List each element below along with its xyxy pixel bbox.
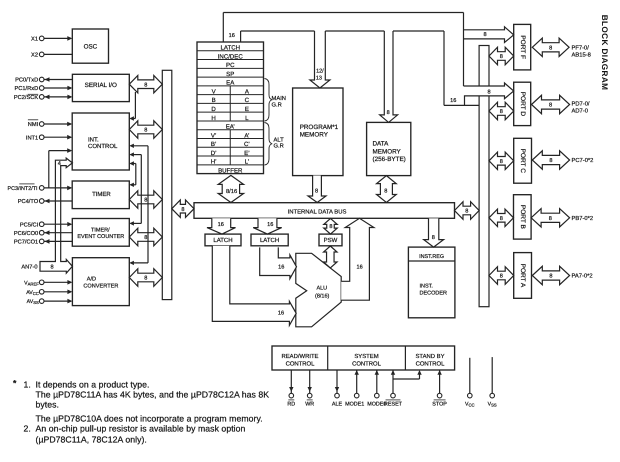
svg-text:B: B [212,97,216,104]
svg-text:MEMORY: MEMORY [373,148,402,155]
svg-text:D: D [211,106,216,113]
svg-text:LATCH: LATCH [220,45,240,52]
svg-text:PD7-0/: PD7-0/ [572,100,590,107]
svg-text:8: 8 [432,235,435,241]
svg-text:PC7/CO1: PC7/CO1 [14,239,38,246]
svg-text:The µPD78C10A does not incorpo: The µPD78C10A does not incorporate a pro… [36,414,263,424]
svg-text:C’: C’ [244,141,250,148]
svg-text:16: 16 [218,222,224,228]
svg-text:ALU: ALU [316,285,327,291]
svg-text:8: 8 [465,209,468,215]
svg-text:ALT: ALT [274,137,285,143]
svg-text:INT1: INT1 [26,135,38,141]
svg-text:PSW: PSW [324,237,338,244]
svg-text:CONVERTER: CONVERTER [83,283,118,289]
svg-text:8: 8 [315,188,318,194]
svg-text:8: 8 [50,265,53,271]
svg-text:PC: PC [226,62,235,69]
svg-text:X2: X2 [31,53,38,59]
svg-text:(µPD78C11A, 78C12A only).: (µPD78C11A, 78C12A only). [36,435,147,445]
svg-text:VSS: VSS [488,402,497,408]
svg-text:PB7-0*2: PB7-0*2 [572,215,594,222]
svg-text:READ/WRITE: READ/WRITE [282,353,319,360]
svg-text:TIMER/: TIMER/ [91,228,110,234]
svg-text:BUFFER: BUFFER [218,167,243,174]
svg-text:RESET: RESET [384,402,403,408]
svg-text:PA7-0*2: PA7-0*2 [572,273,593,280]
svg-text:EA’: EA’ [226,124,235,131]
svg-text:PC7-0*2: PC7-0*2 [572,157,594,164]
svg-text:INTERNAL DATA BUS: INTERNAL DATA BUS [288,208,347,215]
svg-text:LATCH: LATCH [260,237,279,244]
svg-text:16: 16 [267,222,273,228]
svg-text:AD7-0: AD7-0 [572,107,588,114]
svg-text:DECODER: DECODER [420,291,448,297]
svg-text:PC3/INT2/TI: PC3/INT2/TI [8,186,38,192]
svg-text:16: 16 [356,265,362,271]
svg-text:12/: 12/ [316,68,324,74]
svg-text:E: E [245,106,249,113]
svg-text:INT.: INT. [88,136,99,143]
svg-text:B’: B’ [211,141,216,148]
svg-text:WR: WR [305,402,314,408]
svg-text:8: 8 [384,188,387,194]
svg-text:G.R: G.R [274,143,284,150]
svg-text:16: 16 [229,33,235,39]
svg-text:CONTROL: CONTROL [88,143,118,150]
svg-text:RD: RD [287,402,295,408]
svg-text:PORT B: PORT B [519,205,526,229]
svg-text:8: 8 [144,128,147,134]
svg-text:PC1/RxD: PC1/RxD [14,85,38,92]
svg-text:PF7-0/: PF7-0/ [572,45,590,52]
svg-text:G.R: G.R [272,102,282,109]
svg-text:MEMORY: MEMORY [300,132,329,139]
svg-text:EVENT COUNTER: EVENT COUNTER [77,234,124,240]
svg-text:PORT D: PORT D [519,92,526,117]
svg-text:C: C [245,97,250,104]
svg-text:PC6/CO0: PC6/CO0 [14,230,38,237]
svg-text:CONTROL: CONTROL [416,360,446,367]
svg-text:13: 13 [316,75,322,81]
svg-text:8: 8 [487,89,490,95]
svg-text:8: 8 [329,224,332,230]
svg-text:X1: X1 [31,37,38,43]
svg-text:EA: EA [226,80,235,87]
svg-text:The µPD78C11A has 4K bytes, an: The µPD78C11A has 4K bytes, and the µPD7… [36,390,270,400]
svg-text:An on-chip pull-up resistor is: An on-chip pull-up resistor is available… [36,424,246,434]
svg-text:16: 16 [278,310,284,316]
svg-text:PROGRAM*1: PROGRAM*1 [300,124,339,131]
svg-text:A’: A’ [244,132,249,139]
svg-text:8: 8 [483,32,486,38]
svg-text:INST.: INST. [420,284,434,290]
svg-text:INST.REG: INST.REG [419,254,444,260]
svg-text:CONTROL: CONTROL [286,360,316,367]
svg-text:NMI: NMI [28,122,39,128]
svg-text:1.: 1. [24,379,31,389]
svg-text:TIMER: TIMER [92,191,111,198]
svg-text:L’: L’ [245,159,249,166]
svg-text:16: 16 [450,98,456,104]
svg-text:8: 8 [500,159,503,165]
svg-text:8: 8 [181,207,184,213]
svg-text:ALE: ALE [332,402,343,408]
svg-text:OSC: OSC [84,43,98,50]
svg-text:8: 8 [500,216,503,222]
svg-text:E’: E’ [244,150,249,157]
svg-text:bytes.: bytes. [36,399,59,409]
svg-text:SP: SP [226,71,234,78]
svg-text:8: 8 [387,110,390,116]
svg-text:INC/DEC: INC/DEC [218,53,244,60]
svg-text:SERIAL I/O: SERIAL I/O [85,82,117,89]
svg-text:PC0/TxD: PC0/TxD [15,77,38,84]
svg-text:D’: D’ [211,150,217,157]
svg-text:PC4/TO: PC4/TO [18,198,39,205]
svg-text:CONTROL: CONTROL [352,360,382,367]
svg-text:2.: 2. [24,424,31,434]
svg-text:8: 8 [144,235,147,241]
svg-text:8: 8 [144,82,147,88]
svg-text:STAND BY: STAND BY [415,353,444,360]
svg-text:8: 8 [549,216,552,222]
svg-text:VAREF: VAREF [24,281,39,287]
svg-text:PC2/SCK: PC2/SCK [14,94,39,101]
svg-text:16: 16 [278,265,284,271]
svg-text:4: 4 [58,161,61,167]
svg-text:H: H [211,115,215,122]
svg-text:AVCC: AVCC [26,290,39,296]
svg-text:PORT F: PORT F [519,35,526,59]
svg-text:SYSTEM: SYSTEM [354,353,378,360]
svg-text:8: 8 [500,54,503,60]
svg-text:8: 8 [144,198,147,204]
svg-text:AN7-0: AN7-0 [21,264,37,270]
svg-text:8: 8 [549,45,552,51]
svg-text:H’: H’ [211,159,217,166]
svg-text:BLOCK DIAGRAM: BLOCK DIAGRAM [600,15,609,91]
svg-text:It depends on a product type.: It depends on a product type. [36,379,150,389]
svg-text:STOP: STOP [432,402,447,408]
svg-text:8/16: 8/16 [226,188,237,195]
svg-text:DATA: DATA [373,141,390,148]
svg-text:8: 8 [549,103,552,109]
svg-text:LATCH: LATCH [213,237,232,244]
svg-text:VCC: VCC [465,402,475,408]
svg-text:PC5/CI: PC5/CI [20,221,39,228]
svg-text:PORT A: PORT A [519,264,526,288]
svg-text:MAIN: MAIN [272,96,287,102]
svg-text:AVSS: AVSS [27,299,39,305]
svg-text:8: 8 [500,109,503,115]
svg-text:8: 8 [549,274,552,280]
svg-text:8: 8 [144,276,147,282]
svg-text:V’: V’ [211,132,216,139]
svg-text:AB15-8: AB15-8 [572,52,591,59]
svg-text:(8/16): (8/16) [315,293,330,299]
svg-text:A/D: A/D [87,276,96,283]
svg-text:PORT C: PORT C [519,149,526,174]
svg-text:MODE1: MODE1 [345,402,364,408]
svg-text:8: 8 [500,274,503,280]
svg-text:(256-BYTE): (256-BYTE) [373,156,406,163]
svg-text:8: 8 [549,158,552,164]
